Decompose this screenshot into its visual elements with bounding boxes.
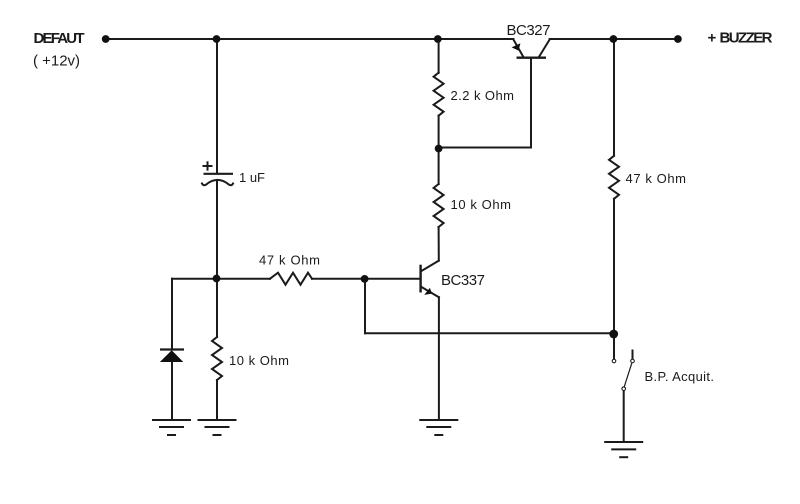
svg-text:10 k Ohm: 10 k Ohm xyxy=(229,353,289,368)
svg-text:2.2 k Ohm: 2.2 k Ohm xyxy=(451,88,515,103)
svg-text:( +12v): ( +12v) xyxy=(33,52,80,69)
svg-text:10 k Ohm: 10 k Ohm xyxy=(451,197,512,212)
svg-text:B.P. Acquit.: B.P. Acquit. xyxy=(645,369,715,384)
svg-text:BUZZER: BUZZER xyxy=(720,30,773,47)
svg-text:BC337: BC337 xyxy=(441,272,485,289)
svg-text:47 k Ohm: 47 k Ohm xyxy=(626,171,687,186)
svg-text:1 uF: 1 uF xyxy=(239,170,265,185)
svg-text:BC327: BC327 xyxy=(507,22,551,39)
svg-text:DEFAUT: DEFAUT xyxy=(34,30,85,47)
svg-text:+: + xyxy=(708,30,717,47)
svg-text:47 k Ohm: 47 k Ohm xyxy=(259,253,320,268)
